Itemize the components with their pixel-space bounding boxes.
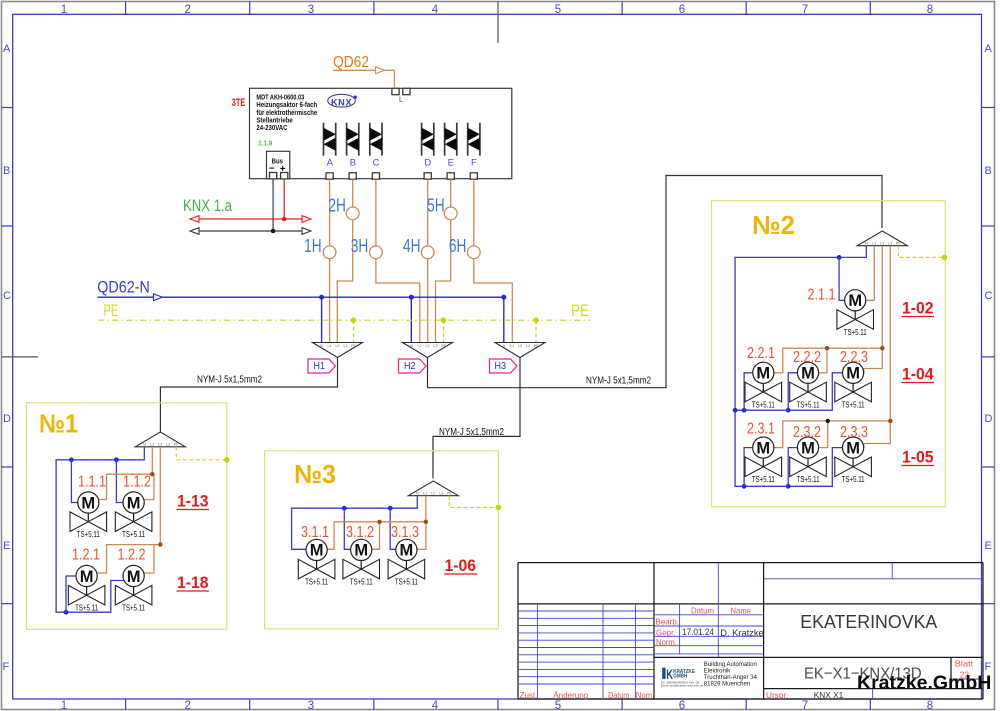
svg-text:1.2.1: 1.2.1 xyxy=(72,547,100,564)
svg-text:2: 2 xyxy=(184,4,190,16)
svg-text:3H: 3H xyxy=(351,236,369,256)
svg-text:24-230VAC: 24-230VAC xyxy=(256,123,287,132)
zone 3 PE bond node xyxy=(496,505,502,511)
svg-text:4: 4 xyxy=(432,4,439,16)
QD62 arrow xyxy=(376,67,385,74)
ferrule circle 2H xyxy=(346,207,359,220)
svg-text:A: A xyxy=(3,43,11,55)
svg-text:2.1.1: 2.1.1 xyxy=(808,287,836,304)
wire N riser valve 2.2.1 xyxy=(744,373,753,410)
svg-text:Bearb.: Bearb. xyxy=(656,617,680,627)
svg-text:Nom: Nom xyxy=(636,690,652,700)
node PE to H3 xyxy=(533,317,539,323)
svg-text:Email info@kratzke-edv-web.de: Email info@kratzke-edv-web.de xyxy=(661,684,704,688)
svg-text:3: 3 xyxy=(308,4,314,16)
wire N riser valve 2.3.2 xyxy=(788,448,797,487)
svg-text:N: N xyxy=(416,492,419,496)
node N valve 1.1.2 xyxy=(114,457,119,462)
svg-text:5H: 5H xyxy=(427,196,445,216)
valve motor 2.3.3 xyxy=(835,437,872,484)
svg-text:3.1.1: 3.1.1 xyxy=(301,524,329,541)
wire N drop to H2 xyxy=(410,297,412,342)
frame row letters left xyxy=(3,43,12,673)
svg-text:1: 1 xyxy=(61,4,67,16)
svg-text:H2: H2 xyxy=(404,360,416,372)
svg-text:6: 6 xyxy=(679,4,685,16)
triac channel B xyxy=(347,123,359,156)
svg-text:2.2.2: 2.2.2 xyxy=(793,349,821,366)
svg-text:№2: №2 xyxy=(752,210,795,240)
svg-text:7: 7 xyxy=(802,4,808,16)
wire channel B down jog to H1 xyxy=(337,179,352,342)
distribution funnel zone 1 inlet xyxy=(135,432,185,447)
wire PE drop to H2 xyxy=(443,320,445,342)
wire QD62 to L terminal xyxy=(333,70,394,88)
svg-text:1-02: 1-02 xyxy=(902,299,934,318)
svg-text:A: A xyxy=(327,158,334,169)
svg-text:2.3.3: 2.3.3 xyxy=(840,424,868,441)
node L2 branch 2.2.2 xyxy=(825,346,829,350)
node L1 zone 1 xyxy=(150,472,154,476)
svg-text:L2: L2 xyxy=(426,344,430,348)
wire N drop valve 3.1.3 xyxy=(390,508,396,549)
cable junction funnel H3 xyxy=(495,343,545,358)
svg-text:Änderung: Änderung xyxy=(553,690,588,700)
triac channel E xyxy=(445,123,457,156)
wire PE earth line xyxy=(98,319,590,321)
valve motor 2.2.2 xyxy=(790,362,827,409)
cable junction funnel H1 xyxy=(313,343,363,358)
svg-text:Blatt: Blatt xyxy=(955,658,974,668)
distribution funnel zone 3 inlet xyxy=(408,481,458,496)
channel letter labels A-F xyxy=(327,158,477,169)
zone 3 PE bond wire xyxy=(449,496,498,508)
wire L1 drop valve 2.1.1 xyxy=(866,246,874,301)
cable tag H2 xyxy=(399,359,427,373)
svg-text:Zust.: Zust. xyxy=(520,690,538,700)
wire PE drop to H3 xyxy=(535,320,537,342)
cable H3 to zone 3 xyxy=(433,358,520,479)
valve motor 1.1.2 xyxy=(115,492,152,539)
svg-text:Truchthari-Anger 34: Truchthari-Anger 34 xyxy=(704,675,758,681)
triac channel C xyxy=(370,123,382,156)
svg-text:Urspr.: Urspr. xyxy=(766,690,788,700)
svg-text:4: 4 xyxy=(432,700,439,711)
valve motor 3.1.1 xyxy=(298,539,335,586)
junction dot black bus xyxy=(271,229,276,234)
svg-text:E: E xyxy=(985,540,992,552)
svg-text:NYM-J 5x1,5mm2: NYM-J 5x1,5mm2 xyxy=(197,375,262,386)
svg-text:D. Kratzke: D. Kratzke xyxy=(720,628,763,638)
svg-text:17.01.24: 17.01.24 xyxy=(682,627,714,637)
svg-text:Norm.: Norm. xyxy=(656,637,677,647)
node N valve 2.1.1 xyxy=(837,255,842,260)
svg-text:L2: L2 xyxy=(336,344,340,348)
svg-text:KNX: KNX xyxy=(331,97,352,107)
svg-text:QD62-N: QD62-N xyxy=(97,279,150,297)
svg-text:2.2.1: 2.2.1 xyxy=(747,345,775,362)
svg-text:L3: L3 xyxy=(166,443,170,447)
svg-text:L1: L1 xyxy=(418,344,422,348)
svg-text:PE: PE xyxy=(174,443,179,447)
wire N drop valve 3.1.2 xyxy=(344,508,350,549)
svg-text:H1: H1 xyxy=(314,360,326,372)
node L1 branch 3.1.2 xyxy=(377,520,381,524)
wire channel C down jog to H2 xyxy=(376,179,420,342)
svg-text:1.2.2: 1.2.2 xyxy=(118,547,146,564)
svg-text:L1: L1 xyxy=(150,443,154,447)
svg-text:L3: L3 xyxy=(888,242,892,246)
cable tag H3 xyxy=(490,359,518,373)
junction dot red bus xyxy=(282,217,287,222)
svg-text:№1: №1 xyxy=(39,409,78,439)
svg-text:L3: L3 xyxy=(439,492,443,496)
title block xyxy=(518,563,983,700)
svg-text:2.3.1: 2.3.1 xyxy=(747,421,775,438)
valve motor 1.1.1 xyxy=(70,492,107,539)
node L2 zone 2 xyxy=(880,346,884,350)
svg-text:L1: L1 xyxy=(872,242,876,246)
black arrow right xyxy=(302,228,311,235)
wire N drop valve 2.1.1 xyxy=(839,257,844,300)
svg-text:E: E xyxy=(3,540,10,552)
svg-text:L3: L3 xyxy=(526,344,530,348)
wire L1 drop zone 1 xyxy=(99,447,154,500)
svg-text:3: 3 xyxy=(308,700,314,711)
node N to H1 xyxy=(319,295,324,300)
svg-text:Datum: Datum xyxy=(608,690,629,700)
output terminal A xyxy=(326,173,333,179)
svg-text:L3: L3 xyxy=(344,344,348,348)
zone 2 PE bond wire xyxy=(898,246,944,258)
svg-text:N: N xyxy=(865,242,868,246)
svg-text:PE: PE xyxy=(896,242,901,246)
KNX logo xyxy=(328,94,357,107)
frame row ticks right xyxy=(982,108,995,604)
svg-text:PE: PE xyxy=(534,344,539,348)
node N valve 1.2.1 xyxy=(64,610,69,615)
svg-text:6H: 6H xyxy=(449,236,467,256)
zone 3 N wire xyxy=(292,496,418,550)
svg-text:2: 2 xyxy=(184,700,190,711)
svg-text:C: C xyxy=(3,290,11,302)
svg-text:1-06: 1-06 xyxy=(445,556,477,575)
node PE to H2 xyxy=(441,317,447,323)
svg-text:8: 8 xyxy=(927,4,933,16)
svg-text:1-13: 1-13 xyxy=(177,492,209,511)
distribution funnel zone 2 inlet xyxy=(857,231,907,246)
svg-text:PE: PE xyxy=(441,344,446,348)
red arrow left xyxy=(190,216,199,223)
output terminal C xyxy=(372,173,379,179)
ferrule circle 5H xyxy=(444,207,457,220)
wire channel E down jog to H2 xyxy=(436,179,451,342)
wire N drop to H3 xyxy=(503,297,505,342)
frame column ticks top xyxy=(126,2,871,15)
title red labels xyxy=(520,605,974,700)
node N valve 3.1.3 xyxy=(388,506,393,511)
svg-text:3TE: 3TE xyxy=(232,97,246,109)
zone 1 PE bond wire xyxy=(176,447,227,460)
node N to H3 xyxy=(501,295,506,300)
svg-text:5: 5 xyxy=(555,700,561,711)
svg-text:L1: L1 xyxy=(510,344,514,348)
frame row ticks left xyxy=(2,108,13,604)
cable junction funnel H2 xyxy=(403,343,453,358)
node L1 zone 3 xyxy=(424,520,428,524)
svg-text:4H: 4H xyxy=(403,236,421,256)
U1 type label text xyxy=(256,92,317,132)
wire L2 drop zone 1 xyxy=(97,447,160,573)
wire N drop valve 1.1.1 xyxy=(71,460,78,503)
svg-text:F: F xyxy=(471,158,477,169)
valve motor 1.2.2 xyxy=(115,565,152,612)
svg-text:PE: PE xyxy=(571,301,589,320)
wire QD62-N neutral line xyxy=(97,296,504,298)
svg-text:8: 8 xyxy=(927,700,933,711)
svg-text:2.3.2: 2.3.2 xyxy=(793,424,821,441)
svg-text:1.1.1: 1.1.1 xyxy=(78,474,106,491)
KNX bus line black xyxy=(197,230,303,232)
wire channel A down to H1 xyxy=(329,179,331,342)
zone box 2 xyxy=(712,201,946,507)
node N valve 2.3.2 xyxy=(786,484,791,489)
svg-text:NYM-J 5x1,5mm2: NYM-J 5x1,5mm2 xyxy=(586,376,651,387)
valve motor 2.3.1 xyxy=(745,437,782,484)
svg-text:1.1.9: 1.1.9 xyxy=(258,138,272,147)
svg-text:PE: PE xyxy=(103,301,118,320)
black arrow left xyxy=(190,228,199,235)
svg-text:L2: L2 xyxy=(431,492,435,496)
svg-text:N: N xyxy=(143,443,146,447)
svg-text:№3: №3 xyxy=(294,459,336,489)
valve motor 2.1.1 xyxy=(837,290,874,337)
Kratzke logo mark xyxy=(661,666,704,688)
ferrule circle 6H xyxy=(467,246,480,259)
triac channel A xyxy=(324,123,336,156)
output terminal B xyxy=(349,173,356,179)
frame column numbers top xyxy=(61,4,933,16)
wire L2 drop row 2.2 xyxy=(774,246,883,373)
title block black outline xyxy=(518,563,983,699)
svg-text:1-05: 1-05 xyxy=(902,448,934,467)
node N valve 2.3.1 xyxy=(742,484,747,489)
cable tag H1 xyxy=(308,359,336,373)
svg-text:KNX X1: KNX X1 xyxy=(814,690,844,700)
svg-text:PE: PE xyxy=(447,492,452,496)
svg-text:C: C xyxy=(985,290,993,302)
svg-text:D: D xyxy=(985,413,993,425)
svg-text:B: B xyxy=(350,158,356,169)
svg-text:B: B xyxy=(985,165,992,177)
wire L3 drop row 2.3 xyxy=(774,246,891,448)
svg-text:C: C xyxy=(373,158,380,169)
svg-text:1H: 1H xyxy=(304,236,322,256)
frame column ticks bottom xyxy=(126,699,871,710)
svg-text:Datum: Datum xyxy=(691,606,714,616)
svg-text:Gepr.: Gepr. xyxy=(656,628,676,638)
valve motor 3.1.2 xyxy=(343,539,380,586)
svg-text:Kratzke.GmbH: Kratzke.GmbH xyxy=(857,672,991,694)
svg-text:2.2.3: 2.2.3 xyxy=(840,349,868,366)
svg-text:1-04: 1-04 xyxy=(902,365,934,384)
cable H2 to zone 2 xyxy=(428,176,883,388)
L supply terminal left xyxy=(392,88,399,94)
node N valve 2.2.2 xyxy=(786,408,791,413)
revision table blue lines xyxy=(518,563,983,699)
svg-text:2H: 2H xyxy=(328,196,346,216)
svg-text:L2: L2 xyxy=(880,242,884,246)
triac channel F xyxy=(468,123,480,156)
node N to H2 xyxy=(409,295,414,300)
valve motor 2.2.3 xyxy=(835,362,872,409)
node N row 2.2 main xyxy=(733,408,738,413)
svg-text:Elektronik: Elektronik xyxy=(704,668,731,674)
ferrule circle 1H xyxy=(323,246,336,259)
svg-text:7: 7 xyxy=(802,700,808,711)
svg-text:6: 6 xyxy=(679,700,685,711)
red arrow right xyxy=(302,216,311,223)
wire channel F down jog to H3 xyxy=(474,179,513,342)
svg-text:KNX 1.a: KNX 1.a xyxy=(183,197,233,215)
node L2 zone 1 xyxy=(158,542,162,546)
cable H1 to zone 1 xyxy=(160,358,337,432)
node L3 branch 2.3.2 xyxy=(826,419,830,423)
svg-text:N: N xyxy=(410,344,413,348)
frame row letters right xyxy=(985,43,993,673)
svg-text:81829 Muenchen: 81829 Muenchen xyxy=(704,681,750,687)
wire N drop valve 1.1.2 xyxy=(116,460,123,503)
Kratzke address xyxy=(704,662,758,688)
svg-text:3.1.2: 3.1.2 xyxy=(346,524,374,541)
svg-text:F: F xyxy=(3,661,10,673)
wire N riser valve 2.3.1 xyxy=(744,448,753,487)
svg-text:PE: PE xyxy=(351,344,356,348)
svg-text:Building Automation: Building Automation xyxy=(704,662,757,668)
svg-text:D: D xyxy=(3,413,11,425)
L supply terminal right xyxy=(403,88,410,94)
svg-text:L1: L1 xyxy=(328,344,332,348)
svg-text:L2: L2 xyxy=(158,443,162,447)
Bus terminal plus xyxy=(281,173,288,179)
svg-text:GMBH: GMBH xyxy=(673,674,687,680)
wire N drop to H1 xyxy=(321,297,323,342)
node PE to H1 xyxy=(351,317,357,323)
zone 1 N wire top row xyxy=(56,447,144,612)
wire Bus plus down xyxy=(283,179,285,219)
svg-text:A: A xyxy=(985,43,993,55)
frame column numbers bottom xyxy=(61,700,933,711)
top fold mark xyxy=(497,2,499,44)
svg-text:L3: L3 xyxy=(434,344,438,348)
zone box 3 xyxy=(265,451,499,629)
node L3 zone 2 xyxy=(888,419,892,423)
heating actuator U1 MDT AKH-0600.03 xyxy=(250,88,512,178)
zone 1 PE bond node xyxy=(224,457,230,463)
svg-text:5: 5 xyxy=(555,4,561,16)
QD62-N arrow xyxy=(154,294,163,301)
valve motor 1.2.1 xyxy=(68,565,105,612)
wire PE drop to H1 xyxy=(353,320,355,342)
output terminal E xyxy=(447,173,454,179)
valve motor 2.3.2 xyxy=(790,437,827,484)
svg-text:B: B xyxy=(3,165,10,177)
Bus terminal minus xyxy=(270,173,277,179)
svg-text:E: E xyxy=(448,158,454,169)
wire N riser valve 1.2.1 xyxy=(66,576,76,612)
left fold mark xyxy=(2,356,39,358)
svg-text:L1: L1 xyxy=(423,492,427,496)
svg-text:L: L xyxy=(399,95,403,104)
KNX bus line red xyxy=(197,218,303,220)
svg-text:NYM-J 5x1,5mm2: NYM-J 5x1,5mm2 xyxy=(439,427,504,438)
svg-text:Name: Name xyxy=(731,605,752,615)
svg-text:3.1.3: 3.1.3 xyxy=(391,524,419,541)
zone 2 PE bond node xyxy=(942,255,948,261)
ferrule circle 3H xyxy=(370,246,383,259)
svg-text:N: N xyxy=(503,344,506,348)
valve motor 2.2.1 xyxy=(745,362,782,409)
node N valve 3.1.2 xyxy=(342,506,347,511)
Bus terminal box xyxy=(267,151,290,178)
wire L1 drop zone 3 xyxy=(327,496,426,550)
zone 2 N wire main xyxy=(735,246,866,487)
svg-text:1-18: 1-18 xyxy=(177,573,209,592)
output terminal D xyxy=(424,173,431,179)
svg-text:1.1.2: 1.1.2 xyxy=(123,474,151,491)
wire N riser valve 2.2.2 xyxy=(788,373,797,410)
svg-text:1: 1 xyxy=(61,700,67,711)
svg-text:L2: L2 xyxy=(518,344,522,348)
ferrule circle 4H xyxy=(421,246,434,259)
valve motor 3.1.3 xyxy=(388,539,425,586)
wire Bus minus down xyxy=(272,179,274,231)
triac channel D xyxy=(422,123,434,156)
svg-text:EKATERINOVKA: EKATERINOVKA xyxy=(800,611,938,632)
wire channel D down to H2 xyxy=(427,179,429,342)
output terminal F xyxy=(470,173,477,179)
node N valve 2.2.1 xyxy=(742,408,747,413)
zone box 1 xyxy=(27,403,227,630)
node N valve 1.1.1 xyxy=(69,457,74,462)
svg-text:H3: H3 xyxy=(495,360,507,372)
svg-text:QD62: QD62 xyxy=(333,54,369,71)
svg-text:D: D xyxy=(424,158,431,169)
svg-text:N: N xyxy=(320,344,323,348)
